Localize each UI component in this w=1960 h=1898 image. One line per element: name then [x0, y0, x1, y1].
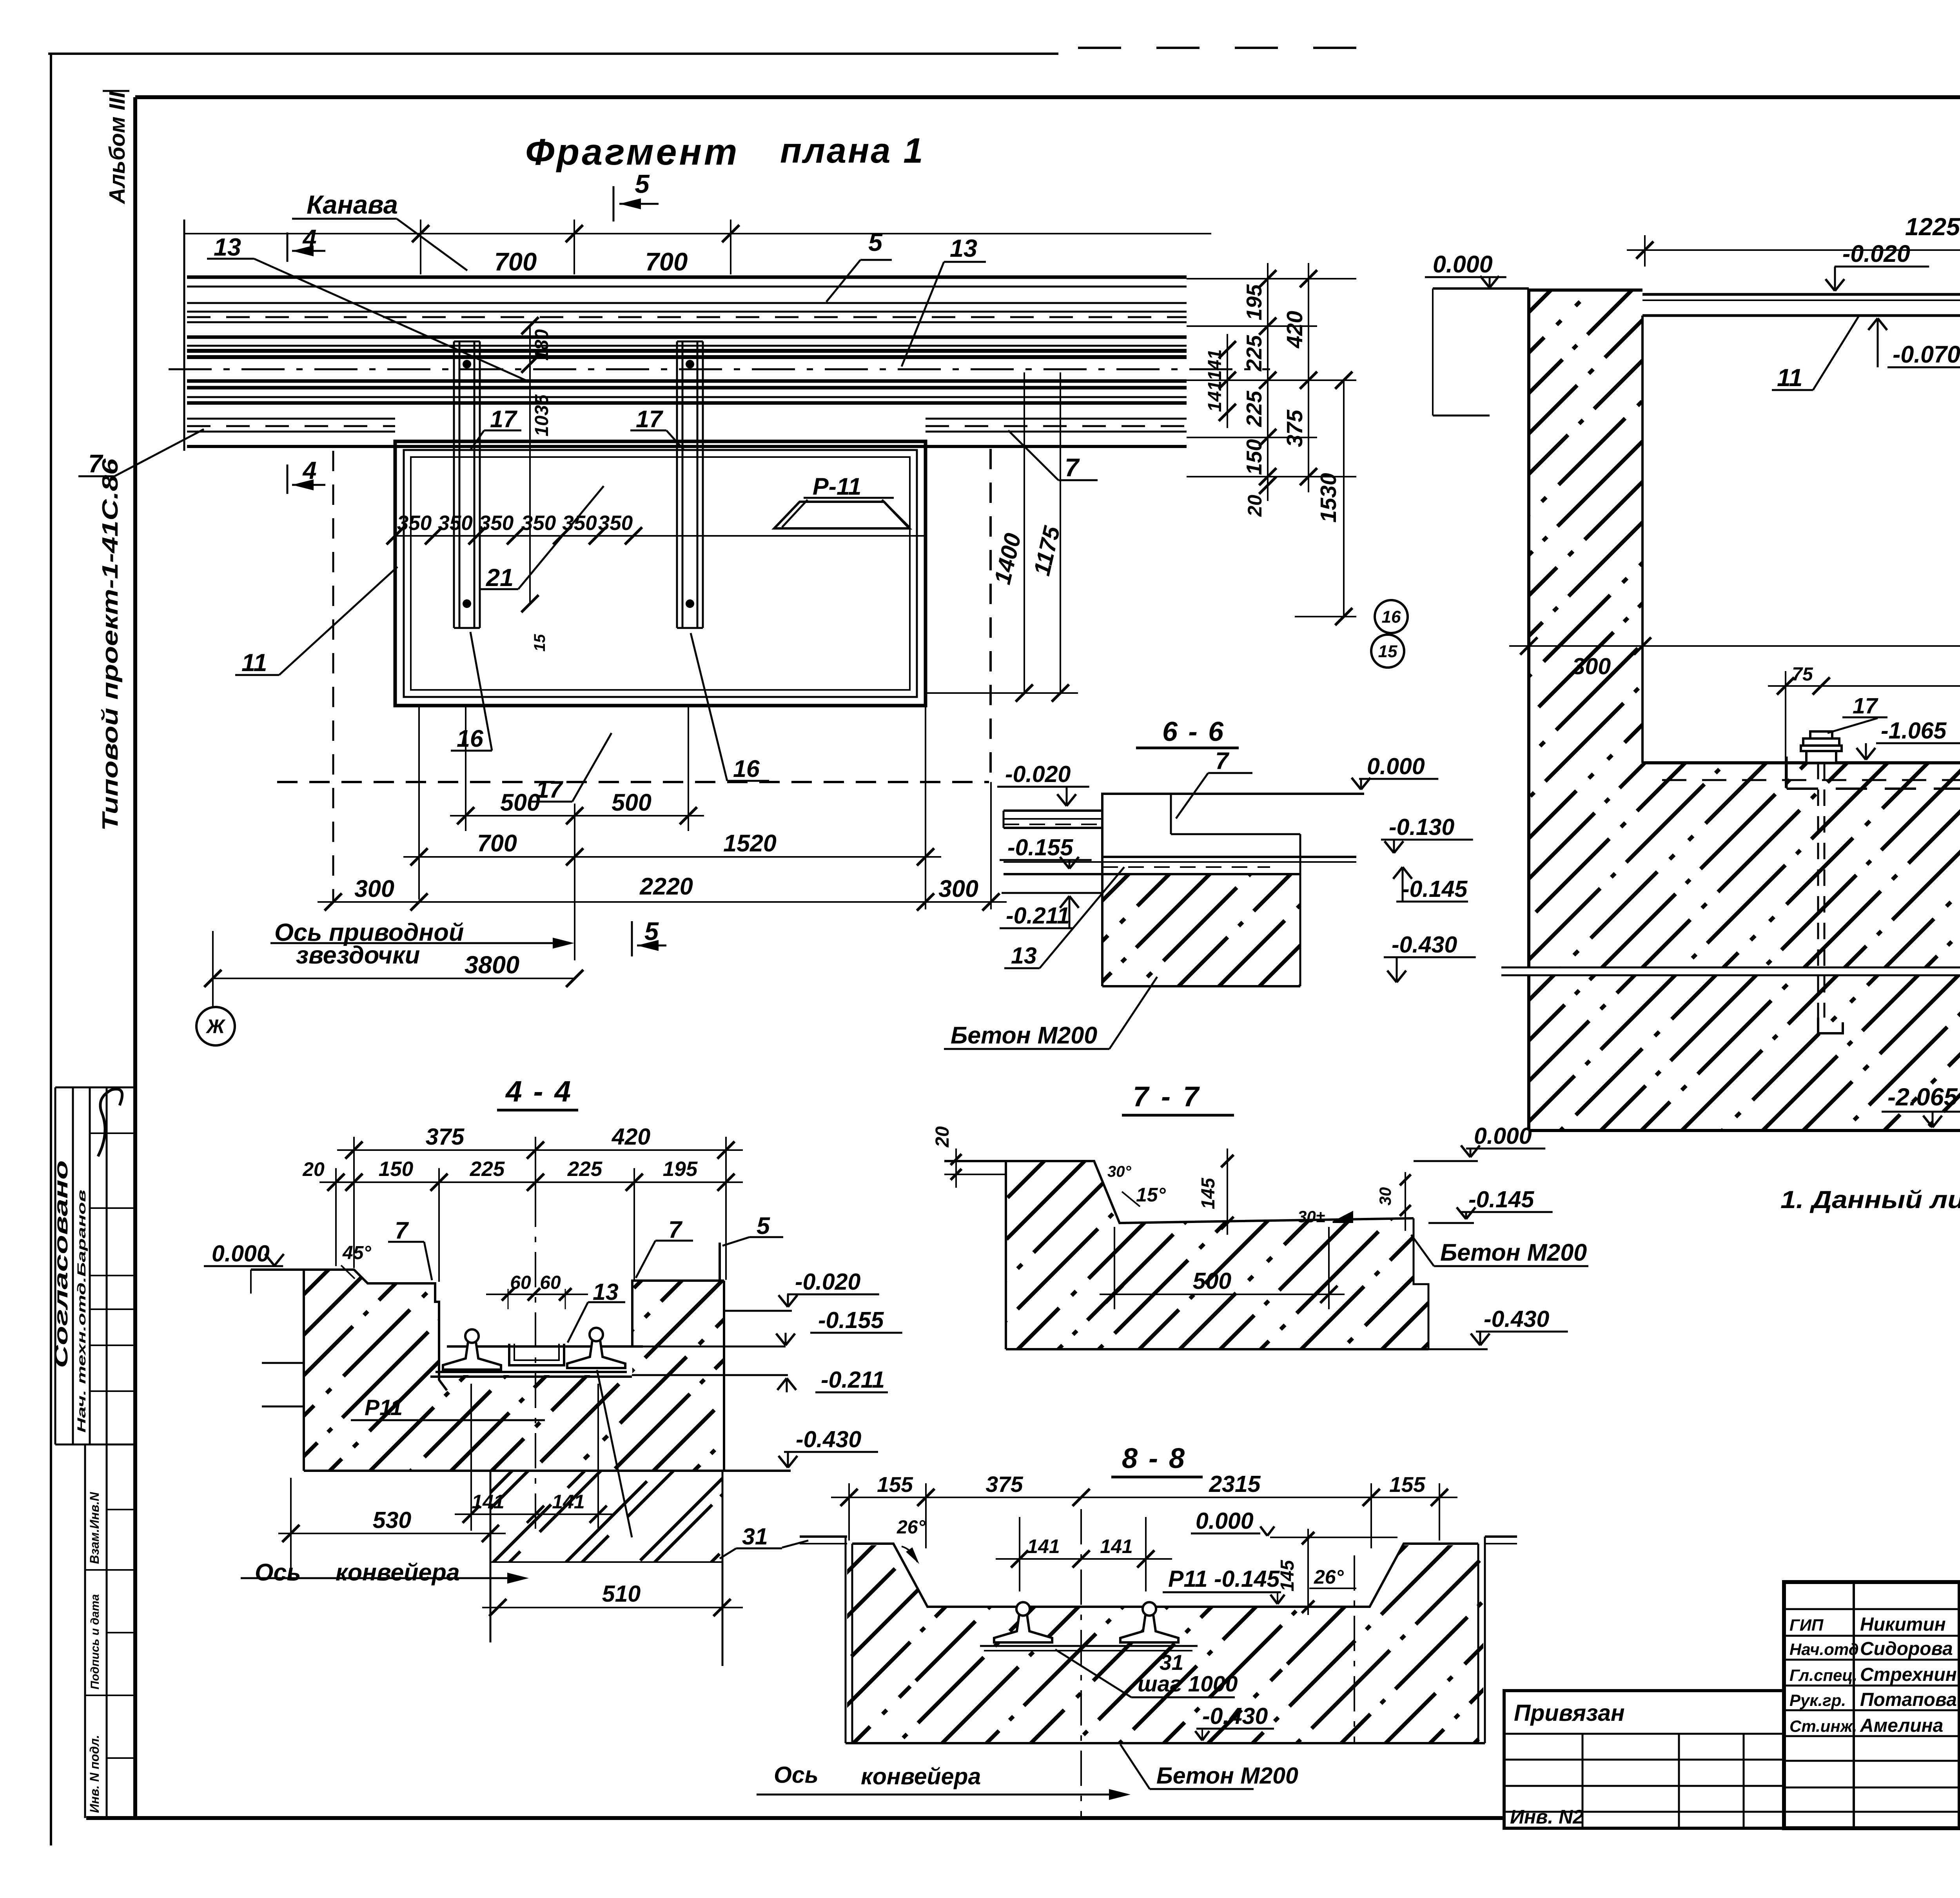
svg-text:350: 350 — [521, 512, 556, 535]
grid axis circle Zh — [196, 1007, 235, 1045]
svg-text:141: 141 — [472, 1491, 504, 1513]
plan right small dims 141 141 — [1227, 334, 1228, 428]
svg-text:4: 4 — [302, 457, 316, 484]
svg-text:30±: 30± — [1298, 1207, 1325, 1226]
svg-text:1520: 1520 — [723, 830, 777, 856]
title block main frame — [1784, 1582, 1960, 1828]
6-6 level lines mid — [1102, 856, 1356, 858]
svg-text:350: 350 — [397, 512, 432, 535]
plan top dimension 700 700 — [184, 233, 1211, 234]
svg-text:26°: 26° — [1314, 1566, 1344, 1588]
svg-text:15°: 15° — [1136, 1184, 1166, 1206]
svg-text:-0.430: -0.430 — [1392, 932, 1457, 958]
4-4 dim 510 — [482, 1607, 743, 1608]
4-4 edge lip 5 — [719, 1243, 721, 1281]
5-5 ground break double line — [1501, 967, 1960, 976]
svg-text:16: 16 — [457, 725, 484, 752]
svg-text:155: 155 — [1389, 1472, 1426, 1497]
6-6 slab layers left — [1004, 809, 1102, 812]
plan bottom dim 3800 — [213, 978, 575, 979]
svg-text:Подпись и дата: Подпись и дата — [89, 1594, 102, 1689]
svg-text:7: 7 — [1065, 453, 1080, 482]
4-4 trench floor — [447, 1345, 643, 1348]
svg-text:0.000: 0.000 — [1474, 1123, 1532, 1149]
svg-text:-0.145: -0.145 — [1468, 1187, 1534, 1212]
svg-text:7: 7 — [395, 1217, 409, 1244]
svg-text:Инв. N подл.: Инв. N подл. — [87, 1735, 102, 1813]
svg-text:195: 195 — [1242, 284, 1266, 320]
svg-text:-1.065: -1.065 — [1881, 718, 1947, 744]
plan small dims 180 1035 15 — [529, 326, 531, 364]
svg-text:300: 300 — [354, 875, 394, 902]
8-8 leader to shared 31 label — [782, 1541, 808, 1548]
svg-text:225: 225 — [1242, 390, 1266, 427]
svg-text:150: 150 — [1242, 439, 1266, 475]
5-5 embed dashed frame — [1662, 779, 1960, 781]
svg-text:Рук.гр.: Рук.гр. — [1789, 1691, 1846, 1709]
plan right dim 1530 — [1343, 380, 1345, 617]
svg-text:375: 375 — [426, 1124, 465, 1150]
8-8 inner dash line — [1354, 1555, 1355, 1743]
plan dashed axis horizontal long — [277, 781, 989, 783]
6-6 slab underside line — [1002, 892, 1103, 894]
svg-text:Р11: Р11 — [365, 1395, 403, 1420]
svg-text:0.000: 0.000 — [212, 1241, 270, 1267]
plan 350 dimension row — [395, 535, 926, 537]
svg-text:Стрехнин: Стрехнин — [1860, 1664, 1957, 1685]
inner frame — [135, 95, 1960, 99]
sign-off table top section — [54, 1087, 56, 1444]
svg-text:Р-11: Р-11 — [813, 473, 861, 500]
svg-text:141: 141 — [1100, 1535, 1132, 1557]
title block signature columns — [1853, 1582, 1855, 1828]
svg-text:700: 700 — [494, 247, 537, 276]
svg-text:Фрагмент: Фрагмент — [525, 131, 739, 173]
svg-text:8 - 8: 8 - 8 — [1122, 1443, 1186, 1474]
svg-text:Бетон М200: Бетон М200 — [1156, 1763, 1298, 1789]
svg-text:375: 375 — [1282, 409, 1307, 447]
svg-text:6 - 6: 6 - 6 — [1162, 716, 1225, 747]
5-5 dim 75 1035 180 — [1768, 685, 1960, 687]
svg-text:15: 15 — [531, 634, 548, 651]
svg-text:195: 195 — [663, 1158, 698, 1181]
svg-text:Взам.Инв.N: Взам.Инв.N — [87, 1492, 102, 1564]
svg-text:7 - 7: 7 - 7 — [1133, 1081, 1201, 1112]
svg-text:Ось: Ось — [774, 1762, 818, 1788]
8-8 top dims 155 375 2315 155 — [831, 1497, 1457, 1498]
svg-text:Нач. техн.отд.Баранов: Нач. техн.отд.Баранов — [75, 1190, 88, 1433]
5-5 left wall hatched — [1529, 290, 1960, 1130]
svg-text:1225: 1225 — [1905, 213, 1960, 241]
4-4 dims second row 20 150 225 225 195 — [319, 1181, 743, 1183]
4-4 dim 141 141 — [455, 1513, 615, 1515]
6-6 inner steps — [1170, 794, 1172, 834]
plan bottom dim 300 2220 300 — [318, 901, 1007, 903]
svg-text:11: 11 — [1777, 364, 1802, 392]
svg-text:-0.020: -0.020 — [1842, 240, 1910, 267]
4-4 hatched body right — [632, 1281, 724, 1471]
4-4 foundation bottom — [304, 1470, 791, 1472]
4-4 dims top row 375 420 — [337, 1149, 743, 1151]
svg-text:17: 17 — [490, 406, 518, 432]
plan trench band lines — [187, 276, 1187, 279]
svg-text:225: 225 — [1242, 335, 1266, 372]
svg-text:0.000: 0.000 — [1196, 1508, 1254, 1534]
svg-text:1. Данный лист см. совместно: 1. Данный лист см. совместно с листом 17… — [1780, 1186, 1960, 1214]
svg-text:Р11 -0.145: Р11 -0.145 — [1168, 1566, 1280, 1592]
svg-text:1035: 1035 — [532, 394, 552, 436]
svg-text:5: 5 — [635, 169, 650, 199]
svg-text:500: 500 — [612, 789, 652, 816]
5-5 floor slab 11 — [1642, 293, 1960, 296]
svg-text:Альбом III: Альбом III — [105, 91, 130, 205]
svg-text:-0.430: -0.430 — [796, 1426, 861, 1452]
svg-text:Инв. N2: Инв. N2 — [1510, 1806, 1584, 1828]
7-7 hatched body — [1006, 1161, 1428, 1349]
svg-text:Канава: Канава — [307, 190, 398, 220]
svg-text:-0.430: -0.430 — [1202, 1703, 1268, 1729]
plan section mark 5 top — [613, 186, 615, 221]
5-5 anchor bolts — [1810, 731, 1832, 739]
plan right vertical dims — [1187, 278, 1356, 279]
svg-text:16: 16 — [1382, 607, 1401, 626]
svg-text:300: 300 — [1572, 653, 1611, 679]
svg-text:31: 31 — [742, 1524, 768, 1550]
plan dashed axis vertical right — [989, 449, 992, 782]
svg-text:375: 375 — [985, 1472, 1023, 1497]
privyazan box — [1504, 1691, 1784, 1828]
svg-text:3800: 3800 — [465, 951, 519, 979]
plan left extension line — [183, 220, 185, 451]
svg-text:500: 500 — [500, 789, 540, 816]
svg-text:141: 141 — [552, 1491, 584, 1513]
svg-text:350: 350 — [479, 512, 514, 535]
plan trench centre line — [169, 368, 1270, 370]
svg-text:конвейера: конвейера — [861, 1764, 981, 1789]
6-6 surface 0.000 — [1102, 793, 1364, 795]
svg-text:17: 17 — [636, 406, 664, 432]
outer border top — [48, 53, 1058, 55]
svg-text:5: 5 — [644, 917, 659, 945]
svg-text:Гл.спец.: Гл.спец. — [1789, 1666, 1857, 1684]
svg-text:Бетон М200: Бетон М200 — [951, 1022, 1097, 1049]
svg-text:30: 30 — [1376, 1187, 1394, 1206]
svg-text:13: 13 — [593, 1279, 619, 1305]
svg-text:700: 700 — [477, 830, 517, 856]
svg-text:141: 141 — [1205, 349, 1225, 381]
svg-text:60: 60 — [540, 1272, 561, 1293]
svg-text:15: 15 — [1378, 642, 1397, 661]
7-7 slope wedge right — [1333, 1212, 1352, 1222]
8-8 dim 141 141 — [996, 1558, 1172, 1560]
4-4 lower cross-hatched block — [490, 1471, 722, 1562]
plan section mark 4 lower — [287, 465, 289, 494]
svg-text:420: 420 — [1282, 311, 1307, 348]
plan pit extension lines down — [925, 706, 926, 909]
svg-text:20: 20 — [302, 1158, 325, 1180]
svg-text:7: 7 — [88, 449, 103, 478]
6-6 edge step — [1101, 793, 1103, 828]
svg-text:530: 530 — [373, 1507, 412, 1533]
svg-text:700: 700 — [645, 247, 688, 276]
7-7 dim 500 — [1100, 1294, 1345, 1295]
plan vertical dims 1400 1175 — [1024, 372, 1025, 693]
plan bottom dim 700 1520 — [403, 856, 941, 858]
8-8 dim 145 rotated — [1307, 1529, 1309, 1615]
plan rail pad P-11 — [774, 502, 909, 528]
svg-text:7: 7 — [668, 1216, 683, 1243]
plan right dims 420 375 — [1308, 263, 1309, 492]
plan section mark 4 upper — [287, 232, 289, 262]
svg-text:Амелина: Амелина — [1860, 1715, 1943, 1736]
svg-text:13: 13 — [214, 234, 241, 261]
svg-text:60: 60 — [510, 1272, 531, 1293]
plan channel 16 right — [676, 341, 678, 628]
svg-text:7: 7 — [1215, 748, 1230, 774]
svg-text:-0.155: -0.155 — [818, 1307, 884, 1333]
svg-text:26°: 26° — [897, 1517, 926, 1538]
svg-text:225: 225 — [470, 1158, 505, 1181]
svg-text:Ось: Ось — [255, 1559, 301, 1586]
svg-text:145: 145 — [1277, 1560, 1298, 1591]
svg-text:141: 141 — [1027, 1535, 1060, 1557]
svg-text:-0.070: -0.070 — [1893, 341, 1960, 368]
4-4 wall ties — [262, 1362, 305, 1364]
4-4 channel between rails — [509, 1344, 564, 1365]
svg-text:20: 20 — [1244, 495, 1266, 517]
svg-text:420: 420 — [612, 1124, 651, 1150]
5-5 dim 300 1400 400 — [1509, 645, 1960, 647]
svg-text:-0.211: -0.211 — [821, 1367, 885, 1393]
8-8 hatched trough mass — [847, 1545, 1483, 1743]
4-4 hatched body below floor — [438, 1375, 632, 1471]
svg-text:75: 75 — [1792, 664, 1813, 685]
4-4 hatched body left — [304, 1270, 447, 1471]
svg-text:-0.430: -0.430 — [1484, 1306, 1549, 1332]
svg-text:4: 4 — [302, 225, 316, 252]
7-7 dim 145 — [1227, 1149, 1228, 1235]
plan band lower lines interrupted by pit — [187, 418, 395, 420]
svg-text:Никитин: Никитин — [1860, 1614, 1946, 1635]
svg-text:141: 141 — [1205, 381, 1225, 412]
svg-text:Потапова: Потапова — [1860, 1689, 1957, 1710]
svg-text:150: 150 — [379, 1158, 413, 1181]
6-6 concrete hatched block — [1102, 874, 1300, 986]
7-7 outline — [944, 1161, 1414, 1223]
svg-text:4 - 4: 4 - 4 — [505, 1075, 572, 1108]
svg-text:13: 13 — [950, 235, 977, 262]
8-8 outline — [845, 1537, 847, 1743]
svg-text:Ж: Ж — [205, 1016, 226, 1038]
svg-text:16: 16 — [733, 755, 760, 782]
svg-text:500: 500 — [1193, 1268, 1232, 1294]
svg-text:350: 350 — [438, 512, 472, 535]
svg-text:17: 17 — [1853, 693, 1878, 719]
svg-text:конвейера: конвейера — [336, 1559, 460, 1586]
svg-text:-0.130: -0.130 — [1389, 814, 1454, 840]
4-4 rails — [443, 1341, 501, 1370]
svg-text:-0.020: -0.020 — [1005, 761, 1071, 787]
5-5 top dims 1225 225 225 195 — [1627, 249, 1960, 251]
svg-text:-0.145: -0.145 — [1402, 876, 1468, 902]
4-4 rail pad plate — [436, 1371, 627, 1373]
svg-text:звездочки: звездочки — [296, 942, 420, 969]
svg-text:0.000: 0.000 — [1433, 251, 1493, 278]
svg-text:31: 31 — [1160, 1650, 1183, 1675]
svg-text:225: 225 — [567, 1158, 603, 1181]
svg-text:Сидорова: Сидорова — [1860, 1639, 1953, 1659]
svg-text:Привязан: Привязан — [1514, 1700, 1625, 1726]
svg-text:300: 300 — [938, 875, 978, 902]
svg-text:-0.155: -0.155 — [1007, 835, 1073, 860]
svg-text:2315: 2315 — [1209, 1471, 1261, 1497]
svg-text:155: 155 — [877, 1472, 913, 1497]
svg-text:плана 1: плана 1 — [780, 131, 925, 171]
plan channel 16 left — [453, 341, 455, 628]
svg-text:Бетон М200: Бетон М200 — [1440, 1239, 1587, 1266]
svg-text:350: 350 — [598, 512, 633, 535]
svg-text:Типовой проект-1-41С.86: Типовой проект-1-41С.86 — [98, 459, 123, 831]
plan dashed axis vertical left — [332, 451, 334, 902]
svg-text:145: 145 — [1198, 1178, 1219, 1209]
8-8 surface double lines — [800, 1535, 847, 1538]
plan bottom dim 500 500 — [450, 815, 704, 817]
svg-text:2220: 2220 — [639, 873, 693, 900]
svg-text:-0.020: -0.020 — [795, 1269, 860, 1295]
svg-text:180: 180 — [532, 329, 552, 361]
svg-text:13: 13 — [1011, 943, 1037, 969]
4-4 dim 530 — [278, 1533, 506, 1534]
4-4 body outline — [304, 1270, 447, 1390]
svg-text:Согласовано: Согласовано — [51, 1160, 72, 1368]
svg-text:-2.065: -2.065 — [1887, 1083, 1958, 1111]
4-4 leader 31 long — [597, 1370, 632, 1537]
plan pit rectangle — [395, 441, 926, 706]
5-5 wall and mass outline — [1527, 289, 1530, 1130]
svg-text:5: 5 — [868, 228, 883, 256]
sign-off table bottom section — [84, 1444, 86, 1818]
svg-text:45°: 45° — [342, 1243, 371, 1263]
svg-text:1530: 1530 — [1316, 473, 1341, 523]
8-8 rails — [994, 1613, 1052, 1642]
svg-text:11: 11 — [241, 649, 267, 677]
svg-text:Нач.отд: Нач.отд — [1789, 1640, 1859, 1658]
svg-text:21: 21 — [486, 564, 514, 592]
svg-text:510: 510 — [602, 1581, 641, 1607]
4-4 dim 60 60 — [486, 1294, 588, 1295]
svg-text:20: 20 — [932, 1126, 953, 1148]
detail circles 16 15 — [1375, 600, 1408, 633]
svg-text:ГИП: ГИП — [1789, 1616, 1824, 1634]
7-7 dim 30 rotated — [1405, 1172, 1406, 1231]
svg-text:30°: 30° — [1107, 1163, 1131, 1180]
svg-text:5: 5 — [757, 1212, 770, 1239]
svg-text:Ст.инж.: Ст.инж. — [1789, 1717, 1857, 1735]
outer border left — [50, 53, 52, 1845]
svg-text:шаг 1000: шаг 1000 — [1138, 1671, 1238, 1697]
svg-text:0.000: 0.000 — [1367, 753, 1425, 779]
plan section mark 5 bottom — [631, 921, 633, 956]
